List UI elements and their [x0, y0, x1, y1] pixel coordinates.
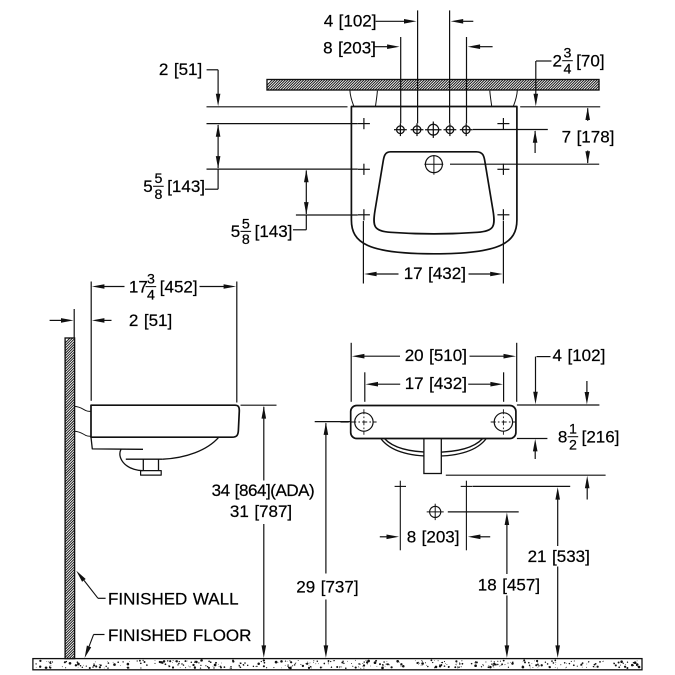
- dimension 8 1/2 [216]: [533, 439, 538, 452]
- extension line hanger height: [315, 421, 352, 423]
- dimension 8 [203] (front): [380, 536, 387, 538]
- dimension 17 [432] (top view): [364, 272, 377, 277]
- dimension 8 [203] (faucet holes, top view): [375, 46, 388, 48]
- svg-text:8: 8: [242, 232, 250, 248]
- supply reference line (8 1/2): [446, 474, 606, 476]
- mounting mark bottom-left: [358, 214, 370, 216]
- extension line faucet hole 1: [400, 37, 402, 123]
- backsplash tab curves (left): [350, 91, 354, 107]
- dimension 17 3/4 [452]: [92, 284, 105, 289]
- svg-text:17: 17: [129, 277, 148, 296]
- bowl underside line to trap: [126, 458, 163, 460]
- drain hole (top view): [425, 156, 442, 173]
- mounting mark mid-left: [358, 168, 370, 170]
- dimension 34/31 rim height: [262, 406, 267, 419]
- rear apron (side view): [91, 437, 143, 449]
- svg-text:FINISHED FLOOR: FINISHED FLOOR: [108, 626, 251, 645]
- svg-text:3: 3: [564, 46, 572, 62]
- lavatory deck (side view): [91, 405, 239, 437]
- svg-text:5: 5: [154, 171, 162, 187]
- dimension 2 3/4 [70] leader: [536, 60, 552, 62]
- extension line faucet hole 4: [449, 10, 451, 123]
- faucet hole 5: [462, 126, 470, 134]
- hanger backplate (front view): [351, 406, 516, 439]
- extension line rim height: [241, 404, 277, 406]
- svg-text:21 [533]: 21 [533]: [528, 547, 590, 566]
- dimension 20 [510]: [352, 354, 365, 359]
- extension lines 17 [432] (front): [364, 372, 366, 402]
- extension line sink top edge (right): [520, 106, 600, 108]
- extension line sink front (side view): [236, 282, 238, 403]
- mounting mark top-right: [497, 123, 509, 125]
- drain tailpiece (front view): [424, 439, 441, 474]
- svg-text:4 [102]: 4 [102]: [324, 12, 377, 31]
- dimension 4 [102] second arrow: [586, 381, 588, 393]
- svg-text:7 [178]: 7 [178]: [562, 128, 615, 147]
- extension line backplate top (right): [517, 404, 600, 406]
- dimension 4 [102] (faucet holes, top view): [376, 20, 404, 22]
- extension line faucet hole 2: [417, 10, 419, 123]
- svg-text:[70]: [70]: [576, 52, 604, 71]
- mounting mark mid-right: [497, 168, 509, 170]
- dimension 2 [51] (side view): [50, 319, 62, 321]
- svg-text:17 [432]: 17 [432]: [404, 264, 466, 283]
- extension lines 20 [510]: [350, 343, 352, 402]
- label 5 5/8 [143] lower: [305, 215, 307, 230]
- supply circle (front view): [430, 506, 441, 517]
- wall section (top view, hatched): [262, 80, 608, 91]
- mounting mark bottom-right: [497, 214, 509, 216]
- svg-text:[216]: [216]: [582, 428, 620, 447]
- trap bend (side view): [120, 449, 143, 470]
- svg-text:20 [510]: 20 [510]: [405, 346, 467, 365]
- svg-text:29 [737]: 29 [737]: [296, 577, 358, 596]
- faucet hole 4: [446, 126, 454, 134]
- bowl underside curve (side view): [163, 437, 219, 459]
- finished floor (speckled strip): [33, 659, 642, 670]
- extension line backplate bottom (right): [517, 438, 548, 440]
- dimension 18 [457]: [505, 513, 510, 526]
- svg-text:34 [864](ADA): 34 [864](ADA): [212, 481, 315, 500]
- dimension 21 [533]: [555, 487, 560, 500]
- extension line mounting row 1 (left): [207, 123, 358, 125]
- dimension 5 5/8 [143] arrows lower: [304, 170, 309, 183]
- svg-text:31 [787]: 31 [787]: [230, 502, 292, 521]
- backsplash tab curves (right): [513, 91, 517, 107]
- mounting mark top-left: [358, 123, 370, 125]
- drain tailpiece (side view): [142, 459, 144, 470]
- faucet hole center: [428, 124, 439, 135]
- extension lines 17 [432] (top view): [362, 221, 364, 284]
- svg-text:17 [432]: 17 [432]: [405, 374, 467, 393]
- rough-in cross left: [395, 485, 406, 487]
- svg-text:[143]: [143]: [255, 222, 293, 241]
- svg-text:[452]: [452]: [160, 277, 198, 296]
- svg-text:2: 2: [553, 52, 562, 71]
- dimension 5 5/8 [143] arrows upper: [216, 124, 221, 137]
- arrow to supply line: [585, 476, 590, 489]
- hanger hole right: [494, 413, 512, 431]
- dimension 2 3/4 [70] lower arrow: [533, 130, 538, 143]
- extension line sink rear (side view): [90, 282, 92, 401]
- dimension 4 [102] leader (front): [537, 356, 551, 358]
- extension line sink top edge (left): [207, 106, 348, 108]
- bowl outline (top view): [374, 152, 494, 234]
- svg-text:[143]: [143]: [167, 177, 205, 196]
- rough-in cross right: [461, 485, 472, 487]
- svg-text:8: 8: [558, 428, 567, 447]
- reference line 21 [533]: [472, 485, 570, 487]
- svg-text:4: 4: [564, 62, 572, 78]
- svg-text:2 [51]: 2 [51]: [129, 311, 172, 330]
- svg-text:8: 8: [154, 187, 162, 203]
- lavatory outline (top view): [351, 107, 517, 254]
- extension line mounting row 2 (left): [207, 168, 358, 170]
- svg-text:8 [203]: 8 [203]: [407, 528, 460, 547]
- faucet hole 1: [397, 126, 405, 134]
- dimension 17 [432] (front): [366, 382, 379, 387]
- label 5 5/8 [143] upper: [217, 169, 219, 189]
- svg-text:FINISHED WALL: FINISHED WALL: [108, 590, 239, 609]
- svg-text:2: 2: [569, 438, 577, 454]
- faucet hole 2: [413, 126, 421, 134]
- extension line hanger centre (left): [341, 421, 349, 423]
- reference line 18 [457]: [448, 511, 519, 513]
- svg-text:8 [203]: 8 [203]: [323, 38, 376, 57]
- svg-text:5: 5: [242, 216, 250, 232]
- dimension 7 [178]: [585, 108, 590, 121]
- svg-text:3: 3: [147, 272, 155, 288]
- svg-text:4 [102]: 4 [102]: [553, 346, 606, 365]
- extension line mounting row 3 (left): [296, 214, 358, 216]
- dimension 29 [737]: [324, 422, 329, 435]
- extension line faucet hole 5: [466, 37, 468, 123]
- bowl rim arcs (front view): [381, 439, 487, 457]
- extension line wall face (above wall): [73, 309, 75, 338]
- hanger hole left: [355, 413, 373, 431]
- extension line faucet row (right): [473, 129, 548, 131]
- svg-text:2 [51]: 2 [51]: [159, 60, 202, 79]
- svg-text:1: 1: [569, 422, 577, 438]
- wall section (side view, hatched): [65, 334, 75, 668]
- svg-text:4: 4: [147, 287, 155, 303]
- svg-text:5: 5: [231, 222, 240, 241]
- svg-text:5: 5: [143, 177, 152, 196]
- wall mounting curves (side view): [75, 406, 91, 411]
- svg-text:18 [457]: 18 [457]: [478, 576, 540, 595]
- extension line drain centre (right): [450, 163, 599, 165]
